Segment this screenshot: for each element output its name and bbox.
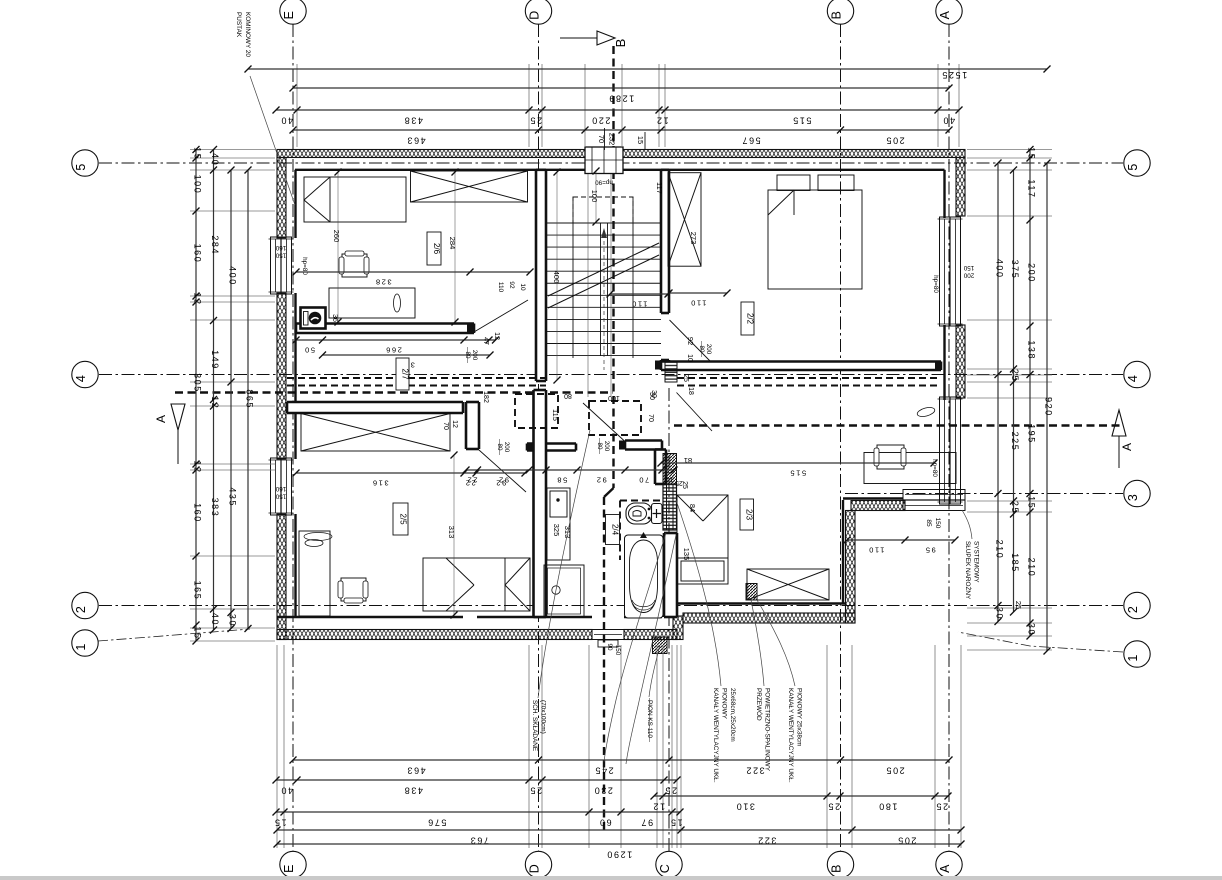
svg-text:200: 200 <box>503 442 510 453</box>
svg-text:KOMINOWY 20: KOMINOWY 20 <box>244 12 251 57</box>
svg-text:2/6: 2/6 <box>432 243 441 255</box>
svg-text:150: 150 <box>614 645 621 656</box>
svg-text:150: 150 <box>275 493 286 500</box>
svg-text:A: A <box>938 864 952 873</box>
svg-text:305: 305 <box>193 373 203 393</box>
svg-text:150: 150 <box>275 252 286 259</box>
svg-text:D: D <box>528 11 542 20</box>
svg-text:25: 25 <box>529 786 542 796</box>
svg-text:SCH. SKŁADANE: SCH. SKŁADANE <box>531 700 538 751</box>
svg-text:200: 200 <box>1027 263 1037 283</box>
svg-text:C: C <box>658 864 672 873</box>
svg-text:81: 81 <box>684 456 692 465</box>
svg-text:463: 463 <box>406 136 426 146</box>
svg-text:313: 313 <box>447 526 456 539</box>
svg-text:40: 40 <box>210 613 220 626</box>
svg-text:PIONOWY: PIONOWY <box>721 688 728 720</box>
svg-text:165: 165 <box>193 581 203 601</box>
svg-text:84: 84 <box>688 504 697 512</box>
svg-text:12: 12 <box>493 332 500 340</box>
svg-text:58: 58 <box>556 476 568 485</box>
svg-text:40: 40 <box>210 153 220 166</box>
svg-text:60: 60 <box>598 818 611 828</box>
svg-text:160: 160 <box>275 244 286 251</box>
svg-text:SYSTEMOWY: SYSTEMOWY <box>973 541 980 583</box>
svg-text:12: 12 <box>193 460 203 473</box>
svg-text:hp=90: hp=90 <box>595 179 613 186</box>
svg-text:266: 266 <box>385 346 402 355</box>
svg-text:70: 70 <box>647 414 654 422</box>
svg-text:PRZEWÓD: PRZEWÓD <box>755 688 764 721</box>
svg-text:KANAŁY WENTYLACYJNY UKŁ.: KANAŁY WENTYLACYJNY UKŁ. <box>787 688 794 783</box>
svg-text:865: 865 <box>245 389 255 409</box>
svg-text:438: 438 <box>403 786 423 796</box>
svg-text:100: 100 <box>193 175 203 195</box>
svg-text:B: B <box>830 11 844 19</box>
svg-text:hp=80: hp=80 <box>301 257 308 275</box>
svg-text:160: 160 <box>193 503 203 523</box>
svg-text:210: 210 <box>1027 558 1037 578</box>
svg-text:25: 25 <box>529 116 542 126</box>
svg-text:284: 284 <box>210 235 220 255</box>
svg-text:12: 12 <box>655 116 668 126</box>
svg-text:117: 117 <box>655 182 664 194</box>
svg-text:110: 110 <box>690 299 707 308</box>
svg-text:3: 3 <box>1126 494 1140 501</box>
svg-text:150: 150 <box>963 264 974 271</box>
svg-text:200: 200 <box>603 441 610 452</box>
svg-text:220: 220 <box>591 116 611 126</box>
svg-text:400: 400 <box>552 271 561 284</box>
svg-text:22: 22 <box>466 476 478 485</box>
svg-text:40: 40 <box>280 116 293 126</box>
svg-text:400: 400 <box>995 259 1005 279</box>
svg-text:80: 80 <box>564 392 572 399</box>
svg-text:90: 90 <box>606 643 613 651</box>
svg-text:50: 50 <box>303 346 315 355</box>
svg-text:117: 117 <box>1027 179 1037 198</box>
svg-text:5: 5 <box>1126 164 1140 171</box>
svg-text:182: 182 <box>482 391 489 403</box>
svg-text:195: 195 <box>1027 424 1037 444</box>
svg-text:25: 25 <box>1010 369 1020 382</box>
svg-text:138: 138 <box>1027 340 1037 360</box>
svg-text:15: 15 <box>273 818 286 828</box>
svg-text:97: 97 <box>640 818 653 828</box>
svg-text:185: 185 <box>1010 553 1020 573</box>
svg-text:110: 110 <box>497 282 504 293</box>
svg-text:110: 110 <box>868 546 885 555</box>
svg-text:92: 92 <box>497 476 509 485</box>
svg-text:A: A <box>938 10 952 19</box>
svg-text:1: 1 <box>1126 655 1140 662</box>
svg-text:1289: 1289 <box>608 94 634 104</box>
svg-text:2/7: 2/7 <box>401 368 410 380</box>
svg-text:40: 40 <box>280 786 293 796</box>
svg-text:1290: 1290 <box>606 850 632 860</box>
svg-text:92: 92 <box>686 337 695 345</box>
svg-text:PIONOWY 25x38cm: PIONOWY 25x38cm <box>796 688 803 746</box>
svg-text:100: 100 <box>590 190 599 203</box>
svg-text:47: 47 <box>482 337 489 345</box>
svg-text:2/4: 2/4 <box>611 524 620 536</box>
svg-text:B: B <box>613 39 628 48</box>
svg-text:25: 25 <box>827 802 840 812</box>
svg-text:18: 18 <box>687 387 694 395</box>
svg-text:10: 10 <box>686 354 693 362</box>
svg-text:25x68cm,25x20cm: 25x68cm,25x20cm <box>729 688 736 742</box>
svg-text:245: 245 <box>594 766 614 776</box>
svg-text:100: 100 <box>608 394 620 401</box>
svg-text:15: 15 <box>636 136 645 144</box>
svg-text:4: 4 <box>1126 375 1140 382</box>
svg-text:1525: 1525 <box>941 70 967 80</box>
svg-text:92: 92 <box>508 281 515 289</box>
svg-text:POWIETRZNO-SPALINOWY: POWIETRZNO-SPALINOWY <box>764 688 771 772</box>
svg-text:205: 205 <box>885 136 905 146</box>
svg-text:2/3: 2/3 <box>745 509 754 521</box>
svg-text:A: A <box>1120 443 1134 451</box>
svg-text:400: 400 <box>228 266 238 286</box>
svg-text:135: 135 <box>682 548 691 561</box>
svg-text:5: 5 <box>74 164 88 171</box>
svg-text:310: 310 <box>735 802 755 812</box>
svg-text:230: 230 <box>593 786 613 796</box>
svg-text:205: 205 <box>885 766 905 776</box>
svg-text:D: D <box>528 864 542 873</box>
svg-text:2/2: 2/2 <box>746 313 755 325</box>
svg-text:2: 2 <box>1126 606 1140 613</box>
svg-text:15: 15 <box>193 147 203 160</box>
svg-text:273: 273 <box>689 232 698 245</box>
svg-text:115: 115 <box>551 409 560 421</box>
svg-text:85: 85 <box>925 519 932 527</box>
svg-text:328: 328 <box>374 278 391 287</box>
svg-text:25: 25 <box>682 374 689 382</box>
svg-text:E: E <box>282 865 296 873</box>
svg-text:284: 284 <box>448 237 457 250</box>
svg-text:B: B <box>830 865 844 873</box>
svg-text:KANAŁY WENTYLACYJNY UKŁ.: KANAŁY WENTYLACYJNY UKŁ. <box>712 688 719 783</box>
svg-text:12: 12 <box>652 802 665 812</box>
svg-text:463: 463 <box>406 766 426 776</box>
svg-text:149: 149 <box>210 350 220 370</box>
svg-text:70: 70 <box>638 476 650 485</box>
svg-text:160: 160 <box>275 485 286 492</box>
svg-text:95: 95 <box>924 546 936 555</box>
svg-text:260: 260 <box>332 230 341 243</box>
svg-text:30: 30 <box>995 607 1005 620</box>
svg-text:316: 316 <box>371 479 388 488</box>
svg-text:383: 383 <box>210 498 220 518</box>
svg-text:30: 30 <box>228 614 238 627</box>
svg-text:E: E <box>282 11 296 19</box>
svg-text:12: 12 <box>210 396 220 409</box>
svg-text:70: 70 <box>442 422 449 430</box>
svg-text:515: 515 <box>789 469 806 478</box>
svg-text:40: 40 <box>942 116 955 126</box>
svg-text:30: 30 <box>650 390 657 398</box>
svg-text:15: 15 <box>193 626 203 639</box>
svg-text:A: A <box>154 415 168 423</box>
svg-text:SŁUPEK NAROŻNY: SŁUPEK NAROŻNY <box>964 541 973 600</box>
svg-text:180: 180 <box>878 802 898 812</box>
svg-text:920: 920 <box>1044 397 1054 417</box>
svg-text:325: 325 <box>552 524 561 537</box>
svg-text:25: 25 <box>1014 601 1023 609</box>
svg-text:2/5: 2/5 <box>399 513 408 525</box>
svg-text:232: 232 <box>608 133 617 146</box>
svg-text:567: 567 <box>741 136 761 146</box>
svg-text:(70x100cm): (70x100cm) <box>540 700 547 734</box>
svg-text:25: 25 <box>681 481 688 489</box>
svg-text:438: 438 <box>403 116 423 126</box>
svg-text:15: 15 <box>1027 147 1037 160</box>
svg-text:4: 4 <box>74 375 88 382</box>
svg-text:25: 25 <box>1010 501 1020 514</box>
svg-text:375: 375 <box>1010 260 1020 280</box>
svg-text:12: 12 <box>193 292 203 305</box>
svg-text:36: 36 <box>331 314 338 322</box>
svg-text:435: 435 <box>228 487 238 507</box>
svg-text:15: 15 <box>1027 496 1037 509</box>
svg-text:200: 200 <box>705 344 712 355</box>
svg-text:210: 210 <box>995 540 1005 560</box>
svg-text:hp=80: hp=80 <box>932 275 939 293</box>
svg-text:2: 2 <box>74 606 88 613</box>
svg-text:10: 10 <box>519 283 526 291</box>
svg-text:92: 92 <box>595 476 607 485</box>
svg-text:110: 110 <box>631 300 648 309</box>
svg-text:515: 515 <box>792 116 812 126</box>
svg-text:576: 576 <box>427 818 447 828</box>
svg-text:200: 200 <box>963 272 974 279</box>
svg-text:12: 12 <box>662 476 674 485</box>
svg-text:150: 150 <box>934 518 941 529</box>
svg-text:15: 15 <box>669 818 682 828</box>
svg-text:12: 12 <box>451 420 458 428</box>
svg-text:25: 25 <box>935 802 948 812</box>
svg-text:PUSTAK: PUSTAK <box>235 12 242 38</box>
svg-text:225: 225 <box>1010 432 1020 452</box>
svg-text:1: 1 <box>74 644 88 651</box>
svg-text:30: 30 <box>1027 623 1037 636</box>
svg-text:322: 322 <box>745 766 765 776</box>
svg-text:160: 160 <box>193 244 203 264</box>
